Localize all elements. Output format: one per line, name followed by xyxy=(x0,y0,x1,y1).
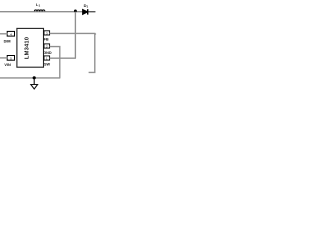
svg-text:L1: L1 xyxy=(36,2,40,8)
pin 1 box xyxy=(44,56,50,60)
wire SW pin to vertical xyxy=(50,57,76,59)
wire FB corner down right side xyxy=(89,33,96,72)
pin 5 box xyxy=(7,56,14,61)
diode D1 xyxy=(83,9,96,14)
pin 4 box xyxy=(7,31,14,36)
pin 2 box xyxy=(44,44,50,48)
svg-text:DIM: DIM xyxy=(4,40,11,44)
wire ground rail xyxy=(0,77,60,79)
wire SW vertical from rail to SW pin xyxy=(74,12,76,59)
svg-text:SW: SW xyxy=(44,63,51,67)
svg-text:D1: D1 xyxy=(84,3,89,9)
inductor L1 xyxy=(34,10,44,11)
svg-text:LM3410: LM3410 xyxy=(25,37,31,59)
wire FB to right xyxy=(50,32,96,34)
svg-text:GND: GND xyxy=(43,51,52,55)
wire DIM to left edge xyxy=(0,33,8,35)
wire top rail VIN to diode xyxy=(0,11,95,13)
node SW junction dot xyxy=(74,9,77,12)
pin 3 box xyxy=(44,31,50,35)
ground junction dot xyxy=(33,76,36,79)
svg-text:FB: FB xyxy=(44,37,49,41)
IC U1 LM3410 body xyxy=(17,28,44,67)
wire GND right then down to ground rail xyxy=(50,47,60,78)
wire VIN to left edge xyxy=(0,57,8,59)
ground symbol xyxy=(31,79,38,89)
svg-text:VIN: VIN xyxy=(4,63,11,67)
